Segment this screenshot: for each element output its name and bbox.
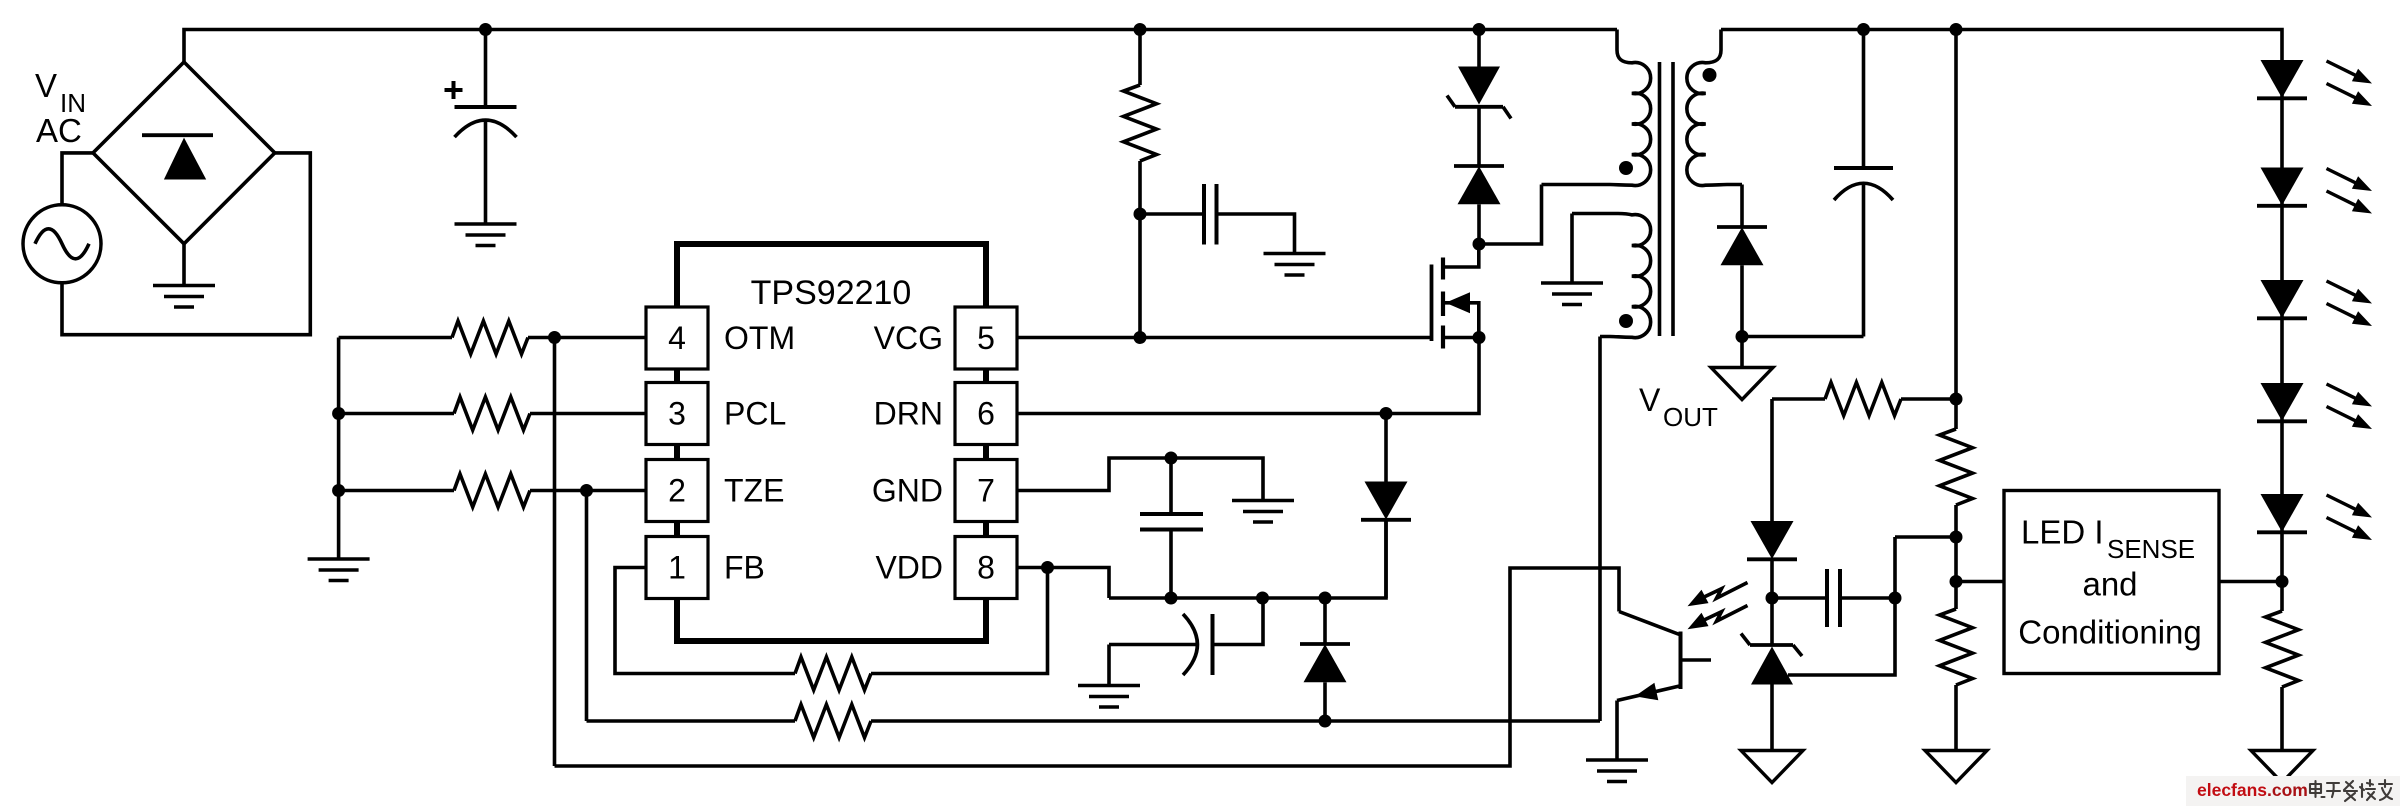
wire C6 right node loop [1788, 537, 1895, 675]
resistor R1 (OTM) [339, 336, 452, 340]
wire bottom rail (opto collector to OTM) [555, 568, 1620, 766]
node MOSFET source node junction dot [1473, 331, 1486, 344]
resistor R7 (opto series from VOUT rail) [1772, 397, 1825, 401]
block LED ISENSE and Conditioning [2004, 491, 2219, 674]
node VOUT rail at C5 junction dot [1857, 23, 1870, 36]
node rectified rail at C1 junction dot [479, 23, 492, 36]
node VDD rail at C4 junction dot [1256, 592, 1269, 605]
ground arrow (LED chain) [2251, 751, 2313, 783]
pin 2 box and label TZE [646, 460, 708, 522]
wire AC source bottom to bridge right vertex [62, 153, 310, 335]
ground arrow (zener) [1741, 751, 1803, 783]
node GND net at C3 junction dot [1165, 452, 1178, 465]
capacitor C5 (output, polarized) [1834, 30, 1893, 337]
wire bridge left vertex to AC source [62, 153, 93, 205]
svg-text:SENSE: SENSE [2107, 534, 2195, 564]
transformer T1 secondary winding [1687, 30, 1742, 186]
label VOUT [1639, 382, 1718, 432]
wire LED chain vertical segments [2280, 60, 2284, 582]
wire TZE junction vertical [585, 491, 589, 722]
wire OTM sense vertical to bottom rail [553, 338, 557, 767]
svg-text:6: 6 [977, 396, 995, 432]
wire aux winding top to ground [1570, 214, 1574, 284]
svg-text:FB: FB [724, 550, 765, 586]
svg-text:.com: .com [2267, 780, 2308, 800]
svg-text:4: 4 [668, 320, 686, 356]
opto LED D6 [1770, 399, 1774, 521]
pin 8 box and label VDD [955, 537, 1017, 599]
svg-text:V: V [1639, 382, 1661, 418]
pin 7 box and label GND [955, 460, 1017, 522]
svg-text:OUT: OUT [1663, 402, 1718, 432]
svg-text:GND: GND [872, 473, 943, 509]
wire VCG pin5 to MOSFET gate [1017, 336, 1432, 340]
diode D2b (snubber series) [1477, 107, 1481, 166]
ground (bridge) [153, 286, 215, 308]
op-amp U1 TPS92210 outline [677, 244, 986, 306]
wire bridge bottom to ground [182, 244, 186, 286]
svg-text:TPS92210: TPS92210 [751, 274, 912, 312]
pin 4 box and label OTM [646, 307, 708, 369]
node divider mid node junction dot [1950, 531, 1963, 544]
svg-text:V: V [35, 67, 57, 104]
node OTM node junction dot [548, 331, 561, 344]
svg-text:TZE: TZE [724, 473, 784, 509]
ground arrow (divider) [1925, 751, 1987, 783]
capacitor C4 (VDD polarized) [1109, 643, 1196, 647]
label VIN AC [35, 67, 86, 149]
svg-text:AC: AC [36, 112, 82, 149]
wire divider mid segment [1954, 537, 1958, 582]
node VDD rail at C3 junction dot [1165, 592, 1178, 605]
LED D12 [2257, 280, 2307, 318]
capacitor C3 (VDD) [1169, 458, 1173, 514]
svg-text:1: 1 [668, 550, 686, 586]
wire VDD rail to clamp diode [1109, 522, 1386, 599]
svg-text:7: 7 [977, 473, 995, 509]
resistor R9 (divider lower) [1954, 582, 1958, 610]
diode D5 (output rectifier) [1740, 185, 1744, 228]
svg-text:5: 5 [977, 320, 995, 356]
transformer T1 aux winding [1572, 214, 1651, 338]
wire VOUT node to output cap [1742, 335, 1864, 339]
zener D7 (opto clamp) [1770, 598, 1774, 645]
pin 3 box and label PCL [646, 383, 708, 445]
svg-text:elecfans: elecfans [2197, 780, 2267, 800]
resistor R5 (TZE divider) on mid rail [587, 719, 796, 723]
resistor R6 (VCG from rail) [1138, 30, 1142, 86]
capacitor C1 bulk (polarized) [445, 30, 517, 225]
node MOSFET drain node junction dot [1473, 238, 1486, 251]
watermark chinese characters [2310, 780, 2392, 801]
opto light arrows [1688, 583, 1748, 630]
svg-text:and: and [2082, 566, 2137, 603]
svg-text:OTM: OTM [724, 320, 795, 356]
LED D10 [2257, 60, 2307, 98]
svg-text:2: 2 [668, 473, 686, 509]
node sense node junction dot [1950, 575, 1963, 588]
svg-text:Conditioning: Conditioning [2018, 614, 2201, 651]
node resistor bus at PCL junction dot [332, 407, 345, 420]
transistor Q1 MOSFET [1432, 244, 1479, 349]
wire GND pin7 [1017, 458, 1263, 501]
pin 6 box and label DRN [955, 383, 1017, 445]
wire aux winding return vertical [1598, 337, 1602, 722]
LED D13 [2257, 383, 2307, 421]
diode D4 (VDD rectifier from aux) [1323, 598, 1327, 644]
wire DRN pin6 to MOSFET source [1017, 338, 1479, 414]
wire VCG node vertical [1138, 214, 1142, 338]
node VOUT rail at divider junction dot [1950, 23, 1963, 36]
svg-text:DRN: DRN [874, 396, 943, 432]
wire primary bottom to drain node [1479, 185, 1542, 245]
wire VDD pin8 node [1017, 568, 1109, 599]
ground (GND pin) [1232, 501, 1294, 523]
AC source V1 [23, 205, 101, 283]
watermark elecfans.com [2186, 776, 2400, 806]
pin 1 box and label FB [646, 537, 708, 599]
LED D11 [2257, 168, 2307, 206]
diode D3 (clamp on DRN) [1384, 414, 1388, 482]
node VIN rectified rail (top) [184, 30, 1617, 63]
LED D14 [2257, 494, 2307, 532]
node VCG gate wire junction dot [1134, 331, 1147, 344]
node divider top node junction dot [1950, 393, 1963, 406]
ground (C4) [1078, 686, 1140, 708]
wire to LED Isense box [1956, 580, 2004, 584]
T1 core [1658, 62, 1662, 336]
ground (aux winding) [1541, 283, 1603, 305]
svg-text:8: 8 [977, 550, 995, 586]
node VDD rail at D4 junction dot [1319, 592, 1332, 605]
resistor R3 (TZE) [339, 489, 454, 493]
opto transistor Q2 [1617, 612, 1711, 761]
capacitor C6 (opto filter) [1772, 596, 1827, 600]
svg-text:PCL: PCL [724, 396, 786, 432]
node rectified rail at R6 junction dot [1134, 23, 1147, 36]
node DRN node at D3 junction dot [1380, 407, 1393, 420]
node TZE rail at D4 junction dot [1319, 715, 1332, 728]
capacitor C2 (VCG) [1140, 212, 1204, 216]
resistor R8 (divider upper) [1954, 399, 1958, 429]
ground (opto emitter) [1586, 760, 1648, 782]
resistor R2 (PCL) [339, 412, 454, 416]
node TZE node junction dot [580, 484, 593, 497]
wire secondary top rail [1721, 30, 2282, 61]
node VDD node junction dot [1041, 561, 1054, 574]
resistor R4 (FB) [615, 568, 795, 674]
node opto filter node junction dot [1889, 592, 1902, 605]
bridge rectifier D1 diamond [93, 62, 275, 244]
pin 5 box and label VCG [955, 307, 1017, 369]
T1 secondary polarity dot [1703, 68, 1717, 82]
transformer T1 primary winding [1542, 30, 1651, 186]
svg-text:3: 3 [668, 396, 686, 432]
node VOUT return arrow [1740, 337, 1744, 368]
node rectified rail at snubber junction dot [1473, 23, 1486, 36]
node opto LED cathode node junction dot [1766, 592, 1779, 605]
svg-text:VCG: VCG [874, 320, 943, 356]
svg-text:VDD: VDD [875, 550, 943, 586]
node LED chain sense node junction dot [2276, 575, 2289, 588]
wire divider top vertical [1954, 30, 1958, 400]
zener TVS D2a (snubber) [1477, 30, 1481, 67]
wire box to LED chain [2219, 580, 2282, 584]
node VCG RC node junction dot [1134, 208, 1147, 221]
T1 aux polarity dot [1619, 314, 1633, 328]
resistor R10 (LED current sense) [2280, 582, 2284, 612]
node VOUT return node junction dot [1736, 330, 1749, 343]
ground (C2) [1264, 254, 1326, 276]
wire left resistor bus vertical [337, 338, 341, 560]
ground (resistor bus) [308, 559, 370, 581]
ground (C1) [455, 224, 517, 246]
node resistor bus at TZE junction dot [332, 484, 345, 497]
bridge rectifier inner diode symbol [142, 135, 213, 179]
svg-text:LED I: LED I [2021, 514, 2104, 551]
T1 primary polarity dot [1619, 161, 1633, 175]
